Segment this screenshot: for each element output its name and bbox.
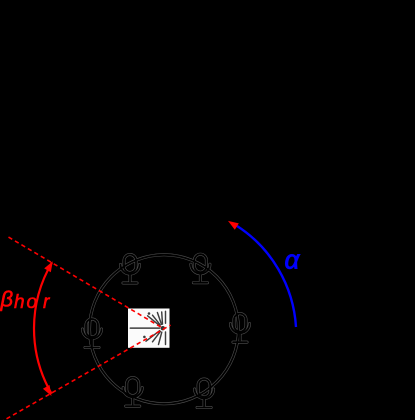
lower FOV dashed line — [0, 325, 171, 420]
upper fan rays — [148, 316, 160, 326]
loudspeaker box — [128, 309, 170, 348]
arrowhead top of beta arc — [44, 261, 53, 272]
upper FOV dashed line — [9, 237, 163, 328]
lower fan rays — [146, 331, 160, 342]
sound rays inside box — [130, 311, 165, 344]
red arrowhead of alpha arc — [228, 221, 239, 230]
svg-text:β: β — [0, 287, 14, 312]
arrowhead bottom of beta arc — [43, 385, 52, 396]
alpha rotation arc — [236, 226, 296, 328]
focal point blob — [161, 326, 165, 330]
ray dots — [148, 312, 151, 315]
svg-text:hor: hor — [14, 292, 50, 313]
faint halo pass of mic ring — [83, 254, 250, 407]
svg-text:α: α — [285, 245, 301, 275]
black core pass of mic ring — [83, 254, 250, 407]
horizontal ray — [130, 327, 159, 329]
beta_hor dimension arc — [34, 263, 52, 394]
